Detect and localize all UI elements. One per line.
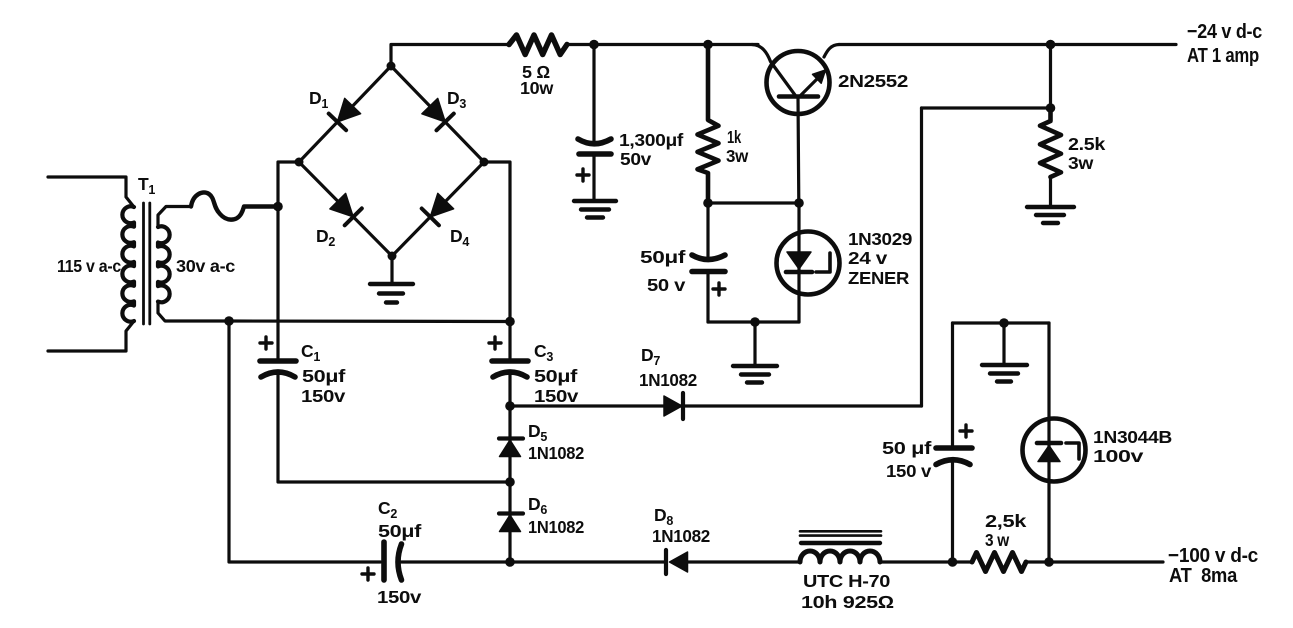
capacitor 50uf 50v straight plate: [692, 269, 725, 275]
inductor L1 core bars: [800, 530, 881, 533]
wire bridge top stub to rail: [391, 45, 509, 67]
node junction D6 bottom rail: [505, 557, 515, 567]
wire zener cell bottom: [708, 320, 799, 323]
node bridge left corner: [295, 158, 304, 167]
resistor 1k 3w: [698, 45, 719, 204]
capacitor C3 column: [508, 322, 511, 359]
wire feedback vertical: [920, 108, 923, 406]
wire bottom rail 2.5k to output: [1026, 560, 1163, 563]
node junction zener cell ground tap: [750, 317, 760, 327]
ground below 1300uf: [574, 199, 616, 203]
node junction zener top: [794, 198, 804, 208]
capacitor 50uf 50v top lead: [706, 203, 709, 256]
wire bottom rail choke to box: [880, 560, 972, 563]
transformer T1 primary winding: [122, 206, 134, 321]
zener 1N3044B triangle: [1038, 446, 1060, 462]
svg-text:3w: 3w: [1068, 153, 1094, 173]
svg-text:1N3029: 1N3029: [848, 229, 913, 249]
svg-text:1N1082: 1N1082: [639, 370, 698, 390]
svg-text:150 v: 150 v: [886, 461, 932, 481]
ground below 2.5k: [1049, 177, 1052, 205]
svg-text:150v: 150v: [377, 587, 422, 607]
transistor base vertical lead: [796, 97, 800, 204]
capacitor 50uf 150v curved plate: [936, 460, 970, 465]
inductor L1 choke winding: [800, 551, 880, 562]
wire D7 line: [510, 404, 922, 407]
transformer T1 primary bottom lead: [48, 321, 134, 351]
capacitor C3 straight plate: [492, 358, 528, 364]
node junction zener2 bottom: [1044, 557, 1054, 567]
capacitor C2 left straight plate: [381, 542, 387, 580]
svg-text:3w: 3w: [726, 146, 749, 166]
svg-text:2N2552: 2N2552: [838, 71, 909, 91]
wire 2.5k top drop: [1049, 45, 1052, 109]
svg-text:50 v: 50 v: [647, 275, 686, 295]
svg-text:24 v: 24 v: [848, 248, 888, 268]
node junction secondary-top to bridge-left: [273, 202, 283, 212]
zener 1N3029 through lead: [797, 203, 800, 322]
svg-text:50 μf: 50 μf: [882, 438, 932, 458]
diode D3: [422, 98, 445, 122]
wire top rail resistor to transistor: [567, 43, 758, 46]
diode D4: [430, 193, 453, 217]
svg-text:1N1082: 1N1082: [652, 526, 711, 546]
resistor 5 ohm 10w: [509, 35, 567, 55]
zener diode 1N3044B circle: [1023, 419, 1086, 482]
zener 1N3029 cathode bar: [786, 270, 812, 275]
capacitor 1300uf bottom lead: [592, 154, 595, 199]
node junction at (229,321): [224, 316, 234, 326]
capacitor 50uf 50v curved plate: [692, 255, 725, 260]
ground inside right box: [1002, 323, 1005, 363]
svg-text:50μf: 50μf: [378, 521, 422, 541]
node junction 2.5k top tap: [1046, 40, 1056, 50]
diode bridge arm top-right: [391, 66, 484, 162]
wire bridge right corner to C3 column: [484, 162, 510, 322]
wire secondary bottom to bridge right (y=321): [229, 319, 510, 323]
transformer T1 secondary top lead: [158, 207, 191, 228]
svg-text:50v: 50v: [620, 149, 652, 169]
capacitor C1 bottom lead: [278, 372, 510, 482]
node junction at (510,321.5): [505, 317, 515, 327]
wire bottom rail D8 to choke: [688, 560, 801, 563]
wire feedback horizontal: [922, 106, 1051, 109]
wire 1k bottom to zener top: [708, 201, 799, 204]
node bridge right corner: [480, 158, 489, 167]
node junction D7 tap: [505, 401, 515, 411]
zener 1N3029 triangle: [787, 252, 811, 269]
transformer T1 secondary bottom lead: [158, 302, 229, 321]
capacitor C3 plus sign: [489, 337, 501, 349]
svg-text:50μf: 50μf: [640, 247, 686, 267]
capacitor 50uf 150v straight plate: [936, 445, 972, 451]
transistor emitter arrowhead: [813, 70, 826, 83]
node junction 1300uf tap: [589, 40, 599, 50]
diode bridge arm bottom-right: [392, 162, 484, 256]
capacitor 1300uf lead: [592, 45, 595, 142]
resistor 2.5k 3w upper: [1040, 108, 1061, 177]
svg-text:1N1082: 1N1082: [528, 517, 585, 537]
wire right box top: [953, 321, 1050, 324]
transformer T1 core: [142, 203, 145, 324]
svg-text:150v: 150v: [534, 386, 579, 406]
svg-text:2,5k: 2,5k: [985, 511, 1027, 531]
transistor Q1 2N2552 circle: [767, 51, 830, 114]
svg-text:UTC H-70: UTC H-70: [803, 571, 891, 591]
diode D8: [670, 552, 688, 572]
capacitor 1300uf straight plate: [579, 151, 611, 157]
svg-text:10w: 10w: [520, 78, 554, 98]
svg-text:1k: 1k: [727, 127, 741, 147]
capacitor 1300uf curved plate: [578, 139, 611, 144]
capacitor C1 straight plate: [260, 358, 296, 364]
svg-text:AT 1 amp: AT 1 amp: [1187, 44, 1259, 67]
transformer T1 secondary winding: [158, 226, 170, 302]
transistor left lead into circle: [752, 45, 795, 96]
capacitor 50uf 150v bottom lead: [951, 459, 954, 562]
node junction box ground tap: [999, 318, 1009, 328]
node bridge bottom corner: [388, 252, 397, 261]
svg-text:50μf: 50μf: [302, 366, 346, 386]
zener 1N3029 hook: [816, 253, 830, 272]
capacitor C3 curved plate: [493, 372, 527, 377]
svg-text:1N3044B: 1N3044B: [1093, 427, 1172, 447]
capacitor C2 plus sign: [362, 568, 374, 580]
diode D7: [664, 396, 682, 416]
capacitor C1 plus sign: [260, 337, 272, 349]
svg-text:30v a-c: 30v a-c: [176, 256, 236, 276]
wire hump in secondary top lead: [191, 193, 278, 220]
svg-text:115 v a-c: 115 v a-c: [57, 256, 122, 276]
capacitor 50uf 50v plus sign: [713, 283, 725, 295]
svg-text:100v: 100v: [1093, 446, 1144, 466]
transformer T1 primary top lead: [48, 177, 134, 207]
wire top rail transistor to output: [839, 43, 1176, 46]
svg-text:AT 8ma: AT 8ma: [1169, 564, 1238, 587]
diode bridge arm bottom-left: [299, 162, 392, 256]
zener diode 1N3044B lead: [1047, 323, 1050, 562]
svg-text:50μf: 50μf: [534, 366, 578, 386]
capacitor C3 bottom lead: [508, 372, 511, 406]
transistor right lead with arrow: [801, 77, 819, 95]
svg-text:1N1082: 1N1082: [528, 443, 585, 463]
zener 1N3044B hook: [1066, 443, 1079, 459]
diode bridge arm top-left: [299, 66, 391, 162]
svg-text:3 w: 3 w: [985, 530, 1010, 550]
capacitor 50uf 50v bottom lead: [706, 272, 709, 323]
diode D2: [330, 193, 353, 216]
diode D5: [508, 406, 511, 562]
wire left drop to bottom rail: [229, 321, 381, 562]
svg-text:−24 v d-c: −24 v d-c: [1187, 20, 1262, 43]
diode D6: [499, 511, 523, 515]
svg-text:2.5k: 2.5k: [1068, 134, 1106, 154]
node junction filter cap bottom: [948, 557, 958, 567]
ground below bridge: [390, 256, 393, 282]
node junction 1k bottom: [703, 198, 713, 208]
wire bottom rail C2 to D8: [402, 560, 666, 563]
capacitor 50uf 150v right top lead: [951, 323, 954, 448]
capacitor 50uf 150v plus sign: [960, 425, 972, 437]
diode D1: [337, 98, 360, 122]
svg-text:1,300μf: 1,300μf: [619, 130, 684, 150]
capacitor C2 right curved plate: [398, 544, 402, 580]
node bridge top corner: [387, 62, 396, 71]
transistor base bar: [779, 94, 818, 99]
node junction 1k tap: [703, 40, 713, 50]
svg-text:150v: 150v: [301, 386, 346, 406]
resistor 2.5k 3w lower: [972, 553, 1026, 572]
capacitor 1300uf plus sign: [577, 169, 589, 181]
svg-text:ZENER: ZENER: [848, 268, 910, 288]
zener diode CR1 1N3029 circle: [777, 232, 840, 295]
zener 1N3044B cathode bar: [1037, 441, 1061, 446]
ground below zener cell: [753, 322, 756, 364]
svg-text:10h 925Ω: 10h 925Ω: [801, 592, 894, 612]
capacitor C1 curved plate: [261, 372, 295, 377]
node junction feedback tap: [1046, 103, 1056, 113]
node junction C1 bottom at D5/D6: [505, 477, 515, 487]
wire bridge left corner to C1 branch: [278, 162, 299, 358]
